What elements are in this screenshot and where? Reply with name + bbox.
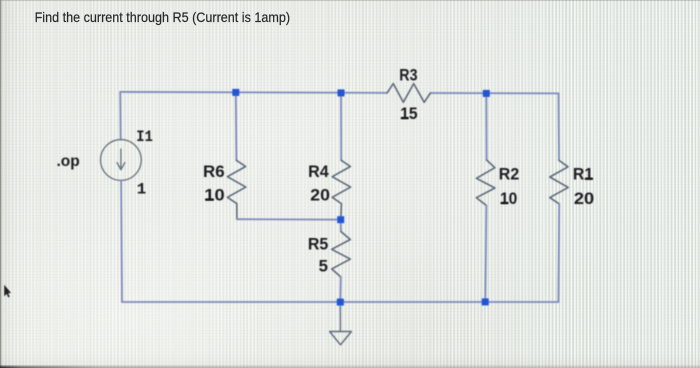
svg-text:1: 1 bbox=[137, 180, 146, 198]
ground stub bbox=[339, 306, 341, 331]
wire R2 top lead bbox=[485, 93, 487, 160]
serif bar for 1 of value 10 (R2) bbox=[501, 202, 509, 204]
resistor R2 bbox=[476, 160, 495, 206]
svg-text:20: 20 bbox=[574, 189, 594, 208]
node R4/R5 junction bbox=[337, 216, 344, 223]
wire top rail right of R3 bbox=[430, 92, 558, 94]
node on top rail at R4 bbox=[338, 89, 345, 96]
wire R4 top lead bbox=[340, 93, 342, 160]
node on top rail at R2 bbox=[483, 90, 490, 97]
wire R1 top lead bbox=[558, 93, 561, 160]
node R2 bottom rail bbox=[482, 298, 489, 305]
svg-text:R4: R4 bbox=[308, 162, 329, 181]
svg-text:5: 5 bbox=[319, 256, 328, 275]
mouse cursor bbox=[4, 285, 11, 298]
current source I1 arrow bbox=[117, 149, 125, 170]
svg-text:10: 10 bbox=[204, 186, 224, 205]
resistor R5 bbox=[332, 232, 351, 278]
ground bbox=[330, 332, 352, 345]
wire R5 top lead bbox=[340, 223, 342, 231]
svg-text:R1: R1 bbox=[573, 165, 593, 184]
svg-text:10: 10 bbox=[500, 189, 517, 208]
wire R6 top lead bbox=[235, 92, 238, 160]
node on top rail at R6 bbox=[232, 89, 239, 96]
svg-text:15: 15 bbox=[400, 104, 417, 123]
serif bar for 1 of value 15 (R3) bbox=[401, 117, 409, 119]
svg-text:R6: R6 bbox=[203, 162, 225, 181]
resistor R4 bbox=[332, 160, 350, 216]
resistor R3 bbox=[387, 84, 430, 103]
svg-text:I1: I1 bbox=[136, 128, 153, 146]
wire bottom rail bbox=[122, 301, 558, 303]
wire left rail upper bbox=[119, 92, 122, 140]
wire R5 bottom lead bbox=[339, 277, 342, 302]
resistor R1 bbox=[550, 160, 568, 204]
wire top rail left of R3 bbox=[120, 92, 387, 93]
svg-text:R5: R5 bbox=[308, 235, 328, 254]
wire R6 to R4/R5 junction bbox=[237, 218, 337, 220]
svg-text:.op: .op bbox=[57, 153, 80, 170]
resistor R6 bbox=[227, 160, 245, 219]
svg-text:20: 20 bbox=[310, 186, 330, 205]
svg-text:R3: R3 bbox=[399, 66, 417, 85]
serif bar for 1 of label R1 bbox=[585, 178, 593, 180]
wire left rail lower bbox=[120, 180, 123, 302]
current source I1 circle bbox=[101, 140, 142, 181]
svg-text:R2: R2 bbox=[499, 165, 519, 184]
svg-text:Find the current through R5 (C: Find the current through R5 (Current is … bbox=[35, 10, 291, 25]
wire R2 bottom lead bbox=[485, 206, 486, 302]
serif bar for 1 of value 10 (R6) bbox=[205, 199, 213, 201]
node R5 bottom / ground bbox=[337, 299, 344, 306]
wire R1 bottom lead bbox=[557, 204, 560, 302]
